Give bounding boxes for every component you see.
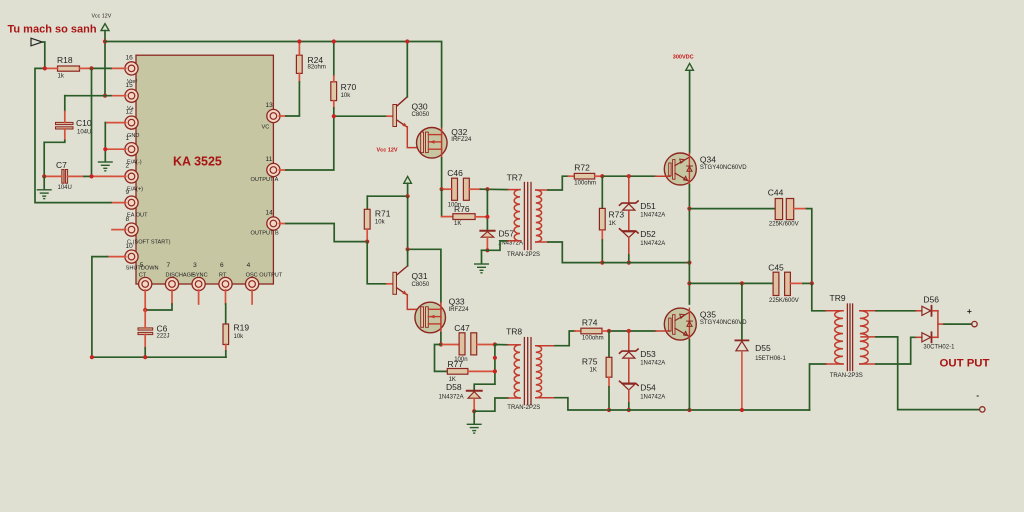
- wire TR9 secondary top to D56: [876, 310, 916, 312]
- node R18 left junction: [43, 66, 47, 70]
- svg-text:Tu mach so sanh: Tu mach so sanh: [8, 24, 97, 36]
- svg-text:15ETH06-1: 15ETH06-1: [755, 356, 786, 362]
- node R71 top junction: [406, 194, 410, 198]
- svg-text:C8050: C8050: [412, 112, 430, 118]
- power flag Vcc 12V: [92, 14, 112, 42]
- wire TR7 secondary top to R72: [548, 176, 569, 190]
- node C45 junction: [687, 281, 691, 285]
- capacitor C10: [56, 96, 92, 141]
- wire C46 node down to D57: [486, 189, 488, 230]
- U1 pin 4 OSC OUTPUT (dangling stub): [246, 262, 283, 304]
- node R77 right junction: [493, 369, 497, 373]
- transistor Q31: [387, 249, 430, 295]
- power flag 300VDC: [673, 54, 694, 152]
- wire R70 bottom to Q30 base: [334, 108, 387, 116]
- svg-text:Q35: Q35: [700, 310, 716, 320]
- node R75 bottom junction: [607, 408, 611, 412]
- node D52 bottom junction: [627, 261, 631, 265]
- wire D54 bottom: [628, 403, 630, 410]
- svg-text:EA OUT: EA OUT: [127, 213, 148, 219]
- wire pin12/pin1 ground column: [104, 123, 106, 162]
- wire C47 right column: [494, 345, 496, 385]
- node R70 top: [332, 39, 336, 43]
- svg-text:10k: 10k: [375, 219, 386, 225]
- svg-text:Q33: Q33: [449, 297, 465, 307]
- wire Q35 emitter down: [688, 340, 690, 410]
- transistor Q32: [417, 127, 472, 158]
- wire C47 to TR8 primary top: [495, 344, 508, 346]
- svg-text:C44: C44: [768, 187, 784, 197]
- svg-text:225K/600V: 225K/600V: [769, 222, 799, 228]
- node R73 top junction: [600, 174, 604, 178]
- svg-text:C10: C10: [76, 118, 92, 128]
- node D55 bottom junction: [740, 408, 744, 412]
- wire OUTPUT A riser: [286, 116, 334, 170]
- svg-text:STGY40NC60VD: STGY40NC60VD: [700, 320, 747, 326]
- svg-text:R70: R70: [341, 82, 357, 92]
- wire 12V column to Q33 drain: [408, 196, 441, 302]
- svg-text:104U: 104U: [77, 130, 91, 136]
- svg-text:Q32: Q32: [451, 127, 467, 137]
- wire R75 bottom: [608, 387, 610, 410]
- node D55 top junction: [740, 281, 744, 285]
- node C45 right junction: [810, 281, 814, 285]
- wire R73 bottom: [601, 240, 603, 263]
- diode D56 lower: [916, 332, 955, 350]
- svg-text:C8050: C8050: [412, 282, 430, 288]
- wire C45 node to TR9 primary top: [812, 283, 826, 310]
- resistor R72: [569, 162, 603, 186]
- svg-text:13: 13: [266, 102, 274, 109]
- svg-text:9: 9: [126, 189, 130, 196]
- svg-text:104U: 104U: [58, 185, 72, 191]
- wire R71 bottom to Q31 base: [367, 242, 387, 284]
- node Q33 source junction: [439, 342, 443, 346]
- svg-text:R75: R75: [582, 357, 598, 367]
- U1 pin 10 SHUTDOWN: [108, 243, 159, 272]
- resistor R19: [223, 323, 249, 352]
- resistor R73: [599, 176, 624, 240]
- svg-text:10: 10: [126, 243, 134, 250]
- svg-text:15: 15: [126, 82, 134, 89]
- svg-text:D57: D57: [499, 228, 515, 238]
- U1 pin 15: [111, 82, 138, 112]
- svg-text:TRAN-2P3S: TRAN-2P3S: [830, 373, 863, 379]
- zener D51: [620, 176, 666, 218]
- node Q31 collector junction: [406, 247, 410, 251]
- node R75 top junction: [607, 329, 611, 333]
- wire TR7 secondary bottom to lower rail: [548, 242, 602, 263]
- transistor Q30: [387, 42, 430, 128]
- svg-text:VC: VC: [262, 125, 270, 131]
- svg-text:1K: 1K: [609, 221, 616, 227]
- transistor Q34: [656, 153, 748, 185]
- svg-text:KA 3525: KA 3525: [173, 155, 222, 169]
- svg-text:1N4742A: 1N4742A: [640, 394, 665, 400]
- wire R19 bottom to rail: [225, 351, 227, 357]
- node CT junction: [143, 308, 147, 312]
- zener D54: [620, 358, 666, 403]
- wire R24 bottom to VC pin13: [286, 82, 299, 116]
- capacitor C46: [442, 168, 481, 209]
- svg-text:Vcc 12V: Vcc 12V: [377, 148, 398, 154]
- svg-text:1N4372A: 1N4372A: [439, 394, 464, 400]
- svg-text:30CTH02-1: 30CTH02-1: [923, 345, 955, 351]
- node R71 bottom junction: [365, 240, 369, 244]
- svg-text:300VDC: 300VDC: [673, 54, 694, 60]
- svg-text:11: 11: [266, 156, 273, 163]
- svg-text:R19: R19: [234, 323, 250, 333]
- svg-text:C7: C7: [56, 160, 67, 170]
- svg-text:C,(SOFT START): C,(SOFT START): [127, 240, 171, 246]
- wire Q33 source to C47 node: [440, 333, 442, 345]
- node D51 top junction: [627, 174, 631, 178]
- zener D52: [620, 210, 666, 255]
- resistor R75: [582, 331, 612, 387]
- node D54 bottom junction: [627, 408, 631, 412]
- svg-text:STGY40NC60VD: STGY40NC60VD: [700, 165, 747, 171]
- wire D57 to TR7 primary bottom: [487, 241, 508, 250]
- wire C46 right to TR7: [481, 188, 509, 190]
- ground under C7: [37, 176, 51, 198]
- resistor R76: [442, 189, 488, 227]
- node bottom rail left: [90, 355, 94, 359]
- wire lower channel bottom rail: [609, 409, 810, 411]
- svg-text:TRAN-2P2S: TRAN-2P2S: [507, 405, 540, 411]
- svg-text:OUTPUT B: OUTPUT B: [251, 231, 279, 237]
- diode D58: [439, 382, 495, 411]
- wire bottom rail: [92, 356, 226, 358]
- input port triangle: [31, 38, 45, 68]
- svg-text:10k: 10k: [234, 334, 245, 340]
- node R73 bottom junction: [600, 261, 604, 265]
- node C46 right junction: [485, 187, 489, 191]
- svg-text:TR9: TR9: [830, 293, 846, 303]
- svg-text:Q34: Q34: [700, 155, 716, 165]
- transistor Q35: [656, 308, 748, 340]
- power flag 12V mid: [404, 176, 412, 196]
- wire Vcc column to pin15 row: [104, 42, 106, 96]
- svg-text:Q30: Q30: [412, 102, 428, 112]
- transformer TR8: [506, 327, 555, 412]
- node D57 anode junction: [485, 248, 489, 252]
- wire C44 right down to C45 right: [807, 209, 812, 284]
- resistor R74: [575, 318, 609, 342]
- U1 pin 16: [111, 55, 138, 86]
- node Q30 collector rail: [405, 39, 409, 43]
- wire Q34 emitter column: [688, 185, 690, 304]
- svg-text:3: 3: [193, 262, 197, 269]
- svg-text:CT: CT: [139, 273, 147, 279]
- wire C6 bottom: [144, 348, 146, 357]
- svg-text:82ohm: 82ohm: [308, 64, 326, 70]
- svg-text:D56: D56: [923, 294, 939, 304]
- resistor R77: [435, 345, 495, 383]
- U1 pin 14 OUTPUT B: [251, 210, 287, 237]
- svg-text:R76: R76: [454, 204, 470, 214]
- wire OUTPUT B to R71 bottom: [286, 224, 367, 242]
- wire flag to R71 top: [367, 195, 407, 197]
- svg-text:SYNC: SYNC: [192, 273, 208, 279]
- svg-text:IRFZ24: IRFZ24: [451, 137, 472, 143]
- U1 pin 5 CT: [139, 262, 152, 310]
- svg-text:R74: R74: [582, 318, 598, 328]
- svg-text:14: 14: [266, 210, 274, 217]
- svg-text:OSC OUTPUT: OSC OUTPUT: [246, 273, 283, 279]
- svg-text:OUTPUT A: OUTPUT A: [251, 177, 279, 183]
- svg-text:1N4742A: 1N4742A: [640, 213, 665, 219]
- capacitor C6: [138, 310, 170, 348]
- IC U1 KA3525 body: [136, 55, 273, 284]
- svg-text:1: 1: [126, 135, 130, 142]
- svg-text:Q31: Q31: [412, 271, 428, 281]
- diode D57: [480, 228, 523, 250]
- svg-text:1N4742A: 1N4742A: [640, 241, 665, 247]
- wire Q30 emitter to Q32 gate: [407, 127, 421, 148]
- svg-text:-: -: [976, 390, 979, 400]
- svg-text:5: 5: [140, 262, 144, 269]
- svg-text:IRFZ24: IRFZ24: [449, 307, 470, 313]
- wire TR9 secondary bottom to D56 lower anode: [876, 337, 916, 364]
- wire C7 right to column: [84, 175, 92, 177]
- wire TR8 secondary bottom to lower rail: [555, 398, 609, 410]
- svg-text:D55: D55: [755, 343, 771, 353]
- wire R74 to Q35 gate: [609, 330, 656, 332]
- svg-text:E/A(-): E/A(-): [127, 160, 142, 166]
- U1 pin 7 DISCHAGE: [165, 262, 195, 304]
- svg-text:TR8: TR8: [506, 327, 522, 337]
- svg-text:R71: R71: [375, 209, 391, 219]
- node D58 anode junction: [472, 409, 476, 413]
- svg-text:1N4742A: 1N4742A: [640, 361, 665, 367]
- transistor Q33: [415, 297, 469, 333]
- resistor R70: [331, 42, 357, 109]
- resistor R24: [296, 42, 325, 83]
- wire R72 to Q34 gate: [602, 175, 655, 177]
- svg-text:222J: 222J: [157, 334, 170, 340]
- node C47 right junction: [493, 342, 497, 346]
- svg-text:RT: RT: [219, 273, 227, 279]
- svg-text:D52: D52: [640, 229, 656, 239]
- svg-text:C46: C46: [447, 168, 463, 178]
- svg-text:12: 12: [126, 109, 134, 116]
- node R18 right junction: [89, 66, 93, 70]
- wire upper channel bottom rail: [602, 262, 689, 264]
- svg-text:4: 4: [247, 262, 251, 269]
- svg-text:C45: C45: [768, 263, 784, 273]
- node Vcc top rail junction: [103, 39, 107, 43]
- svg-text:1k: 1k: [58, 74, 65, 80]
- diode D55: [735, 283, 786, 410]
- wire shutdown to bottom rail: [92, 257, 108, 358]
- capacitor C47: [441, 323, 495, 363]
- wire D56 cathodes to plus terminal: [938, 311, 972, 338]
- U1 pin 12 GND: [105, 109, 139, 140]
- resistor R71: [364, 196, 390, 241]
- diode D56 upper: [916, 294, 939, 316]
- U1 pin 3 SYNC (dangling stub): [192, 262, 208, 304]
- wire Q31 emitter to Q33 gate: [407, 295, 421, 310]
- svg-text:DISCHAGE: DISCHAGE: [166, 273, 195, 279]
- node Q34 emitter rail junction: [687, 261, 691, 265]
- node Q35 emitter rail junction: [687, 408, 691, 412]
- U1 pin 9 EA OUT: [111, 189, 148, 219]
- wire R18 left to EA OUT: [35, 68, 111, 202]
- U1 pin 11 OUTPUT A: [251, 156, 287, 183]
- wire TR8 secondary top to R74: [555, 331, 575, 346]
- node D53 top junction: [627, 329, 631, 333]
- node C6 bottom junction: [143, 355, 147, 359]
- U1 pin 8 soft start (dangling stub): [112, 216, 171, 246]
- zener D53: [620, 331, 666, 367]
- svg-text:C47: C47: [454, 323, 470, 333]
- wire D58 to TR8 primary bottom: [474, 398, 508, 411]
- capacitor C7: [44, 160, 84, 191]
- svg-text:8: 8: [126, 216, 130, 223]
- ground under D57: [475, 250, 489, 272]
- wire rail up to TR9 primary bottom: [810, 364, 827, 410]
- node C44 junction: [687, 207, 691, 211]
- node C7 right junction: [89, 174, 93, 178]
- svg-text:D54: D54: [640, 383, 656, 393]
- svg-text:2: 2: [126, 163, 130, 170]
- wire feedback column x91.5: [91, 68, 93, 176]
- U1 pin 13 VC: [262, 102, 287, 131]
- capacitor C45: [689, 263, 811, 305]
- wire TR9 center tap to minus terminal: [876, 337, 978, 410]
- svg-text:TR7: TR7: [507, 173, 523, 183]
- svg-text:1K: 1K: [590, 368, 597, 374]
- terminal minus: [976, 390, 985, 412]
- svg-text:R72: R72: [574, 162, 590, 172]
- svg-text:225K/600V: 225K/600V: [769, 298, 799, 304]
- transformer TR7: [507, 173, 548, 259]
- node pin1 gnd junction: [103, 147, 107, 151]
- svg-text:TRAN-2P2S: TRAN-2P2S: [507, 252, 540, 258]
- svg-text:16: 16: [126, 55, 134, 62]
- U1 pin 1: [105, 135, 141, 166]
- node Q30 base junction: [332, 114, 336, 118]
- svg-text:R18: R18: [57, 55, 73, 65]
- terminal plus: [967, 306, 977, 327]
- svg-text:100ohm: 100ohm: [582, 335, 604, 341]
- svg-text:D53: D53: [640, 349, 656, 359]
- node column mid junction: [493, 356, 497, 360]
- svg-text:7: 7: [167, 262, 171, 269]
- wire V+ row: [65, 95, 111, 97]
- node Vcc pin15 junction: [103, 94, 107, 98]
- U1 pin 2: [92, 163, 144, 193]
- node R76 right junction: [485, 215, 489, 219]
- wire D52 bottom: [628, 255, 630, 263]
- svg-text:10k: 10k: [341, 93, 352, 99]
- svg-text:6: 6: [220, 262, 224, 269]
- svg-text:D58: D58: [446, 382, 462, 392]
- svg-text:+: +: [967, 306, 972, 316]
- wire Q32 source down to C46 node: [441, 158, 443, 189]
- transformer TR9: [826, 293, 876, 379]
- svg-text:E/A(+): E/A(+): [127, 187, 143, 193]
- ground under pin12: [99, 162, 113, 171]
- svg-text:C6: C6: [157, 324, 168, 334]
- svg-text:Vcc 12V: Vcc 12V: [92, 14, 112, 20]
- wire DISCHAGE to CT: [145, 304, 172, 310]
- node Q32 source junction: [440, 187, 444, 191]
- wire RT to R19: [225, 304, 227, 324]
- wire +12V top rail: [105, 42, 442, 128]
- svg-text:R73: R73: [609, 210, 625, 220]
- wire C10 bottom to C7 left: [44, 141, 65, 177]
- U1 pin 6 RT: [219, 262, 232, 304]
- ground under D58: [467, 411, 481, 433]
- node C7 left junction: [42, 174, 46, 178]
- svg-text:R77: R77: [448, 359, 464, 369]
- svg-text:D51: D51: [640, 201, 656, 211]
- resistor R18: [45, 55, 92, 80]
- svg-text:OUT PUT: OUT PUT: [940, 358, 990, 370]
- node R24 top: [297, 39, 301, 43]
- svg-text:100ohm: 100ohm: [574, 181, 596, 187]
- wire Vref row (R18 right to pin16): [92, 67, 112, 69]
- capacitor C44: [689, 187, 806, 227]
- svg-text:1K: 1K: [454, 221, 461, 227]
